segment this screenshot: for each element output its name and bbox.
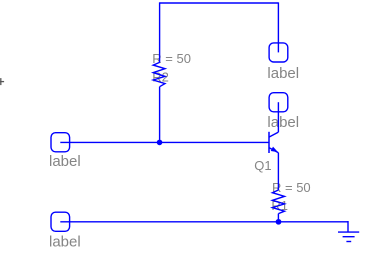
- svg-text:Q1: Q1: [254, 158, 271, 173]
- wire R2 top lead: [159, 2, 161, 62]
- wire R1 bottom lead: [277, 214, 279, 222]
- node junction dot at emitter/bottom bus: [276, 219, 282, 225]
- wire base bus: [60, 141, 269, 143]
- label box right top: [269, 43, 288, 62]
- svg-text:label: label: [267, 65, 299, 82]
- label box left mid: [51, 133, 70, 152]
- label box left bottom: [51, 212, 70, 231]
- ground: [338, 221, 359, 242]
- svg-text:label: label: [49, 233, 81, 250]
- resistor R1: [272, 190, 284, 214]
- resistor R2: [153, 62, 165, 86]
- svg-text:label: label: [49, 153, 81, 170]
- node junction dot at base bus: [157, 140, 163, 146]
- label box right mid: [269, 93, 288, 112]
- wire R2 bottom lead to node: [159, 87, 161, 143]
- wire emitter lead: [277, 153, 279, 190]
- wire top bus: [159, 2, 278, 4]
- transistor Q1: [269, 132, 278, 153]
- plus terminal of clipped source: [0, 78, 4, 85]
- wire top right drop: [277, 2, 279, 52]
- wire collector lead: [277, 102, 279, 132]
- svg-text:label: label: [267, 114, 299, 131]
- wire bottom bus: [60, 221, 348, 223]
